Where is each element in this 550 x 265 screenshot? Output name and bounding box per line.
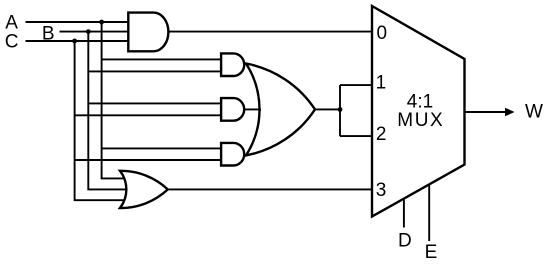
svg-text:3: 3 xyxy=(376,180,387,201)
svg-text:0: 0 xyxy=(377,23,388,44)
wire C vertical branch xyxy=(75,41,125,200)
arrowhead of output W xyxy=(505,108,515,117)
svg-text:2: 2 xyxy=(376,124,387,145)
svg-text:C: C xyxy=(5,32,19,53)
wire C branch to AND G3 bottom input xyxy=(75,159,222,161)
wire AND1 output to MUX input 0 xyxy=(168,31,372,33)
wire G2 output stub into OR1 xyxy=(244,108,261,110)
svg-text:A: A xyxy=(5,12,18,33)
svg-text:B: B xyxy=(42,23,55,44)
svg-text:W: W xyxy=(525,101,543,122)
wire OR1 output to bracket xyxy=(316,108,341,110)
AND gate top (3-input A·B·C) xyxy=(128,13,168,52)
svg-text:E: E xyxy=(425,242,438,263)
junction dot on B wire xyxy=(86,29,91,34)
svg-text:MUX: MUX xyxy=(397,110,444,131)
wire bracket stub to MUX input 1 xyxy=(340,84,372,86)
wire select E xyxy=(428,184,430,241)
wire MUX output W xyxy=(465,111,507,113)
OR gate big (3-input, middle) xyxy=(246,64,315,156)
AND gate G2 (B·C) xyxy=(221,98,244,121)
junction dot on A wire xyxy=(99,20,104,25)
svg-text:D: D xyxy=(398,231,412,252)
wire select D xyxy=(403,199,405,228)
OR gate bottom (A+B+C) xyxy=(120,171,168,208)
wire C branch to AND G2 bottom input xyxy=(75,114,222,116)
svg-text:1: 1 xyxy=(376,72,387,93)
wire B branch to AND G1 bottom input xyxy=(88,70,221,72)
MUX 4:1 trapezoid xyxy=(372,6,465,217)
wire bracket vertical xyxy=(339,85,341,136)
wire B branch to AND G2 top input xyxy=(88,102,221,104)
wire A input xyxy=(26,21,129,23)
wire A branch to AND G3 top input xyxy=(102,147,222,149)
junction dot on bracket xyxy=(338,107,343,112)
wire OR2 output to MUX input 3 xyxy=(168,188,372,190)
junction dot on C wire xyxy=(72,39,77,44)
wire B input xyxy=(60,31,129,33)
wire bracket stub to MUX input 2 xyxy=(340,135,372,137)
wire B vertical branch xyxy=(88,32,127,190)
wire C input xyxy=(26,40,129,42)
wire A branch to AND G1 top input xyxy=(102,58,222,60)
AND gate G1 (A·B) xyxy=(221,53,244,76)
wire A vertical branch xyxy=(102,22,125,178)
AND gate G3 (A·C) xyxy=(221,143,244,166)
